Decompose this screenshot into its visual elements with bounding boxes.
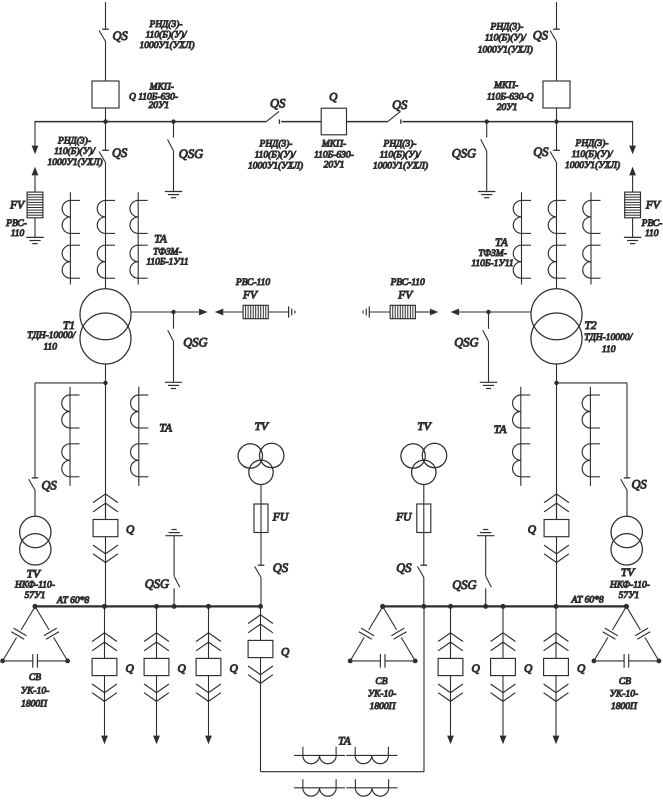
svg-text:QSG: QSG [452,578,476,592]
svg-text:ТФЗМ-: ТФЗМ- [478,249,506,259]
surge arrester FV РВС-110 (mid left) [243,305,268,318]
current transformer ТА col C (left bay) [130,192,148,284]
svg-text:110(Б)(У)/: 110(Б)(У)/ [485,32,527,43]
wire bus tie mid-right [347,121,388,123]
svg-text:Q: Q [329,92,338,104]
wire arrester to ground (mid right) [369,311,390,313]
current transformer ТА col B (left bay) [97,200,115,278]
label ТА ТФЗМ-110Б-1У11 (left) [146,233,188,267]
current transformer ТА bottom row1 B [346,747,397,764]
label Т2 ТДН-10000/110 [584,320,633,355]
svg-text:ТФЗМ-: ТФЗМ- [153,248,181,258]
label TV (center left) [255,421,270,433]
disconnector QS (L1 incoming) [99,29,109,81]
bus-tie breaker Q МКП [321,108,346,135]
svg-text:FV: FV [645,199,662,211]
wire TV to FU (center left) [260,484,262,504]
arrow up (FV left) [32,167,39,192]
svg-text:ТА: ТА [154,233,168,245]
label Q (T1 incomer) [126,524,135,536]
label QS (center left) [273,561,289,575]
label QSG (right bus) [452,578,476,592]
svg-text:Q: Q [126,524,135,536]
arrow left (toward T1) [215,309,243,316]
label Q feeder 1 (right) [472,663,481,675]
feeder 3 drawout breaker Q (left) [196,606,221,735]
svg-text:Т2: Т2 [585,320,597,332]
svg-text:QS: QS [112,146,128,160]
wire T1 tertiary arm [131,311,199,313]
drawout breaker Q (T1 incomer) [93,493,118,606]
wire 110kV bus right section [402,121,632,123]
current transformer ТА col B (right lower) [582,387,600,486]
ground (FV left) [26,237,43,243]
svg-text:110: 110 [645,229,659,239]
label РНД(З)-110(Б)(У)/1000У1(УХЛ) (L1 incoming QS) [139,19,194,51]
feeder 3 drawout breaker Q (right) [544,606,569,735]
svg-text:Q: Q [281,646,290,658]
label QSG (top right) [452,147,476,161]
svg-text:110Б-630-Q: 110Б-630-Q [487,93,534,103]
svg-text:110(Б)(У)/: 110(Б)(У)/ [146,29,188,40]
grounding switch QSG (top left) [168,122,174,191]
svg-text:ТА: ТА [338,735,352,747]
ground (QSG T2 arm) [480,382,497,388]
disconnector QS (center right) [417,565,427,606]
wire link right riser [423,606,425,771]
label FU (center left) [272,512,289,524]
svg-text:110(Б)(У)/: 110(Б)(У)/ [380,149,422,160]
svg-text:Q: Q [524,663,533,675]
voltage transformer TV (center left) [238,443,284,484]
label РВС-110 FV (mid right) [390,278,425,301]
svg-text:57У1: 57У1 [25,591,46,601]
label ТА (left lower) [159,423,173,435]
feeder 1 drawout breaker Q (left) [92,606,117,735]
svg-text:СВ: СВ [619,677,631,687]
label СВ УК-10-1800П (right) [610,677,639,712]
junction dots top bus [103,119,558,123]
svg-text:FV: FV [242,289,259,301]
feeder 3 arrow (right) [553,736,560,745]
svg-text:110: 110 [11,229,25,239]
svg-text:РНД(3)-: РНД(3)- [149,19,183,30]
svg-text:Q: Q [126,663,135,675]
grounding switch QSG (left bus) [165,530,182,607]
wire T2 secondary down [554,364,558,520]
wire bus tie mid-left [281,121,321,123]
svg-text:TV: TV [621,567,636,579]
circuit breaker Q МКП (L2) [543,81,570,122]
ground (QSG top right) [478,192,495,198]
current transformer ТА col B (left lower) [131,387,149,486]
feeder 2 arrow (left) [153,736,160,745]
wire 110kV bus left section [35,121,266,123]
current transformer ТА col A (left lower) [62,387,80,486]
svg-text:1000У1(УХЛ): 1000У1(УХЛ) [139,40,194,51]
label Т1 ТДН-10000/110 [27,320,76,353]
svg-text:QS: QS [392,98,408,112]
svg-text:МКП-: МКП- [321,140,346,150]
wire FU to QS (center right) [423,533,425,566]
svg-text:QS: QS [270,97,286,111]
label Q (T2 incomer) [528,524,537,536]
voltage transformer TV НКФ (left) [20,516,51,565]
arrow right (toward T2) [415,309,438,316]
disconnector QS (TV right) [621,478,631,516]
label Q (bus tie) [329,92,338,104]
wire below arrester (left) [34,218,36,238]
wire T2 tertiary arm [459,311,531,313]
wire FV branch left corner [34,121,36,147]
svg-text:110Б-630-: 110Б-630- [314,150,354,160]
label QS (L1 incoming) [113,29,129,43]
wire TV to FU (center right) [423,484,425,504]
disconnector QS (L2 incoming) [550,29,560,81]
label FU (center right) [395,512,412,524]
svg-text:ТДН-10000/: ТДН-10000/ [27,331,76,341]
svg-text:110: 110 [602,345,616,355]
svg-text:20У1: 20У1 [497,103,518,113]
svg-text:1800П: 1800П [370,702,397,712]
wire incoming line L2 [556,2,558,29]
arrow up (FV right) [629,167,636,192]
svg-text:1000У1(УХЛ): 1000У1(УХЛ) [478,44,533,55]
feeder 2 drawout breaker Q (right) [491,606,516,735]
svg-text:TV: TV [417,421,432,433]
svg-text:РВС-110: РВС-110 [390,278,425,288]
svg-text:TV: TV [255,421,270,433]
feeder 3 arrow (left) [205,736,212,745]
label Q feeder 3 (right) [577,663,586,675]
svg-text:20У1: 20У1 [148,101,169,111]
label QS (center right) [396,561,412,575]
junction dots right bus [380,604,629,609]
disconnector QS (center left) [255,565,265,606]
label QSG (left bus) [145,577,169,591]
voltage transformer TV НКФ (right) [611,516,642,565]
svg-text:57У1: 57У1 [619,591,640,601]
svg-text:РНД(3)-: РНД(3)- [575,138,609,149]
label МКП-110Б-630-Q-20У1 (L2) [487,81,534,113]
bus-tie disconnector QS left [266,111,279,123]
label РНД(З)- (T1 side QS) [47,135,102,167]
svg-text:1800П: 1800П [21,700,48,710]
transformer T1 [80,289,131,364]
svg-text:QSG: QSG [452,147,476,161]
grounding switch QSG (T2 arm) [483,312,489,382]
label FV (left) [9,199,26,211]
ground (QSG top left) [165,192,182,198]
svg-text:110: 110 [44,343,58,353]
fuse FU (center left) [254,504,268,533]
svg-text:СВ: СВ [375,677,387,687]
capacitor bank СВ (right) [592,604,662,668]
svg-text:Q: Q [577,663,586,675]
svg-text:110(Б)(У)/: 110(Б)(У)/ [54,146,96,157]
svg-text:FU: FU [395,512,412,524]
svg-text:1000У1(УХЛ): 1000У1(УХЛ) [248,160,303,171]
label TV НКФ-110-57У1 (left) [14,569,55,602]
label СВ УК-10-1800П (left) [21,673,50,709]
wire arrester to ground (mid left) [268,311,288,313]
svg-text:НКФ-110-: НКФ-110- [609,581,650,591]
label ТА (bottom) [338,735,352,747]
junction dots left bus [33,604,264,609]
svg-text:1000У1(УХЛ): 1000У1(УХЛ) [373,160,428,171]
svg-text:УК-10-: УК-10- [21,687,50,697]
label РНД(З)- (tie right QS) [373,139,428,172]
wire link bottom [261,771,425,773]
svg-text:FU: FU [272,512,289,524]
label Q link breaker [281,646,290,658]
svg-text:1000У1(УХЛ): 1000У1(УХЛ) [47,157,102,168]
svg-text:РНД(3)-: РНД(3)- [57,135,91,146]
svg-text:1000У1(УХЛ): 1000У1(УХЛ) [565,160,620,171]
label ТА ТФЗМ-110Б-1У11 (right) [471,237,513,269]
surge arrester FV РВС-110 (right) [625,192,641,218]
link drawout breaker Q (left) [248,606,273,771]
svg-text:ТА: ТА [494,424,508,436]
label РНД(З)- (tie left QS) [248,139,303,172]
label QS (tie right) [392,98,408,112]
wire branch to TV right [557,383,628,478]
junction dot T2 arm [486,310,490,314]
svg-text:TV: TV [27,569,42,581]
capacitor bank СВ (center) [348,604,418,668]
drawout breaker Q (T2 incomer) [544,493,569,606]
feeder 2 arrow (right) [500,736,507,745]
svg-text:110(Б)(У)/: 110(Б)(У)/ [255,149,297,160]
svg-text:Q: Q [472,663,481,675]
feeder 2 drawout breaker Q (left) [144,606,169,735]
junction dot T1 arm [171,310,175,314]
svg-text:110Б-1У11: 110Б-1У11 [146,257,188,267]
svg-text:УК-10-: УК-10- [368,689,397,699]
feeder 1 arrow (left) [101,736,108,745]
label QS (L2 incoming) [533,29,549,43]
svg-text:110(Б)(У)/: 110(Б)(У)/ [572,149,614,160]
grounding switch QSG (right bus) [477,530,494,607]
label QS (T2 side) [533,145,549,159]
svg-text:QS: QS [632,477,648,491]
svg-text:РВС-: РВС- [5,219,27,229]
grounding switch QSG (top right) [481,122,487,191]
arrow down (FV left) [32,146,39,155]
svg-text:20У1: 20У1 [324,161,345,171]
surge arrester FV РВС-110 (mid right) [390,305,415,318]
current transformer ТА col C (right bay) [583,192,601,284]
circuit breaker Q МКП (L1) [92,81,119,122]
svg-text:QS: QS [273,561,289,575]
label РВС-110 (left) [5,219,27,239]
label QS (TV right) [632,477,648,491]
label МКП-110Б-630-20У1 (bus tie) [314,140,354,171]
label TV НКФ-110-57У1 (right) [609,567,650,601]
label QSG (top left) [179,147,203,161]
label АТ 60*8 (left) [56,596,89,606]
arrow down (FV right) [629,146,636,155]
svg-text:FV: FV [9,199,26,211]
ground (FV right) [624,237,641,243]
label РНД(З)- (T2 side QS) [565,138,620,171]
current transformer ТА bottom row1 A [294,747,345,764]
current transformer ТА col A (left bay) [62,192,80,284]
label Q МКП-110Б-630-20У1 (L1) [129,82,178,110]
wire FU to QS (center left) [260,533,262,566]
label ТА (right lower) [494,424,508,436]
label QSG (T2 arm) [454,336,478,350]
svg-text:СВ: СВ [29,673,41,683]
svg-text:FV: FV [397,289,414,301]
fuse FU (center right) [417,504,431,533]
label АТ 60*8 (right) [571,596,604,606]
wire below arrester (right) [632,218,634,238]
wire T1 secondary down [103,364,107,520]
svg-text:ТА: ТА [495,237,509,249]
label QSG (T1 arm) [183,336,207,350]
svg-text:Q: Q [230,663,239,675]
bus АТ 60*8 (right) [383,605,627,607]
label РВС-110 (right) [641,219,663,239]
svg-text:РНД(3)-: РНД(3)- [490,22,524,33]
svg-text:НКФ-110-: НКФ-110- [14,581,55,591]
svg-text:УК-10-: УК-10- [610,689,639,699]
disconnector QS (TV left) [29,478,39,516]
ground left (mid right arrester) [363,306,369,317]
svg-text:МКП-: МКП- [493,81,518,91]
svg-text:QS: QS [396,561,412,575]
svg-text:QS: QS [42,479,58,493]
current transformer ТА bottom row2 B [347,779,398,796]
svg-text:QS: QS [113,29,129,43]
label Q feeder 2 (left) [178,663,187,675]
wire FV branch right corner [632,121,634,147]
svg-text:QSG: QSG [179,147,203,161]
bus АТ 60*8 (left) [35,605,262,607]
wire incoming line L1 [105,2,107,29]
svg-text:РНД(3)-: РНД(3)- [383,139,417,150]
current transformer ТА col A (right lower) [513,387,531,486]
svg-text:АТ 60*8: АТ 60*8 [56,596,89,606]
ground right (mid left arrester) [289,306,295,317]
label Q feeder 1 (left) [126,663,135,675]
label РНД(З)-110(Б)(У)/1000У1(УХЛ) (L2 incoming QS) [478,22,533,56]
svg-text:QS: QS [533,145,549,159]
svg-text:РНД(3)-: РНД(3)- [259,139,293,150]
arrow left (T2 arm) [451,309,460,316]
ground (QSG T1 arm) [165,382,182,388]
label QS (tie left) [270,97,286,111]
bus-tie disconnector QS right [388,111,401,123]
capacitor bank СВ (left) [0,604,70,668]
svg-text:QSG: QSG [183,336,207,350]
svg-text:ТДН-10000/: ТДН-10000/ [584,333,633,343]
disconnector QS (T2 side) [550,122,560,289]
label QS (T1 side) [112,146,128,160]
svg-text:МКП-: МКП- [149,82,174,92]
feeder 1 arrow (right) [447,736,454,745]
arrow right (T1 arm) [199,309,208,316]
voltage transformer TV (center right) [401,443,447,484]
transformer T2 [531,289,582,364]
wire branch to TV left [35,383,106,478]
label Q feeder 3 (left) [230,663,239,675]
label Q feeder 2 (right) [524,663,533,675]
current transformer ТА col A (right bay) [513,192,531,284]
svg-text:1800П: 1800П [611,702,638,712]
svg-text:QS: QS [533,29,549,43]
svg-text:Q: Q [178,663,187,675]
current transformer ТА col B (right bay) [548,200,566,278]
svg-text:РВС-110: РВС-110 [235,278,270,288]
svg-text:QSG: QSG [145,577,169,591]
label TV (center right) [417,421,432,433]
label СВ УК-10-1800П (center) [368,677,397,712]
svg-text:АТ 60*8: АТ 60*8 [571,596,604,606]
grounding switch QSG (T1 arm) [168,312,174,382]
label РВС-110 FV (mid left) [235,278,270,301]
label FV (right) [645,199,662,211]
feeder 1 drawout breaker Q (right) [438,606,463,735]
surge arrester FV РВС-110 (left) [27,192,43,218]
current transformer ТА bottom row2 A [294,779,345,796]
disconnector QS (T1 side) [99,122,109,289]
svg-text:Q: Q [528,524,537,536]
svg-text:QSG: QSG [454,336,478,350]
svg-text:110Б-1У11: 110Б-1У11 [471,259,513,269]
svg-text:ТА: ТА [159,423,173,435]
svg-text:РВС-: РВС- [641,219,663,229]
label QS (TV left) [42,479,58,493]
